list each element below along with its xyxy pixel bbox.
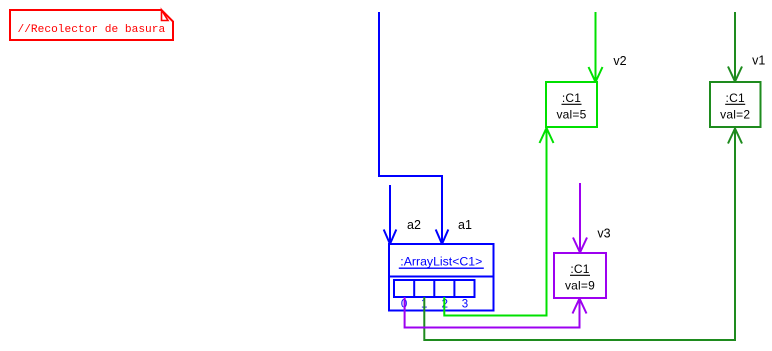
arrowhead a2: [384, 230, 397, 245]
wire cell1 to val=2 box (dark green): [424, 129, 735, 341]
arrowhead v3: [573, 238, 587, 253]
svg-text:val=2: val=2: [720, 108, 750, 122]
ArrayList cells row: [394, 280, 475, 297]
object box :C1 val=2 (dark green): [710, 82, 761, 127]
arrowhead into val=5 bottom: [540, 128, 554, 143]
svg-text::C1: :C1: [570, 262, 589, 276]
cell index labels 0 1 2 3: [401, 299, 468, 311]
arrowhead v2: [589, 67, 603, 82]
note box "//Recolector de basura": [10, 10, 173, 40]
svg-text:val=5: val=5: [556, 108, 586, 122]
svg-text::C1: :C1: [726, 91, 745, 105]
wire a2 (blue line): [389, 185, 391, 244]
svg-text:v1: v1: [752, 54, 765, 68]
svg-text::ArrayList<C1>: :ArrayList<C1>: [400, 254, 482, 268]
svg-text:a2: a2: [407, 218, 421, 232]
svg-text:val=9: val=9: [565, 279, 595, 293]
object box :C1 val=5 (bright green): [546, 82, 597, 127]
svg-text:v2: v2: [613, 54, 626, 68]
ArrayList object box: [389, 244, 494, 311]
wire cell0 to val=9 box (purple): [405, 297, 580, 328]
svg-text:v3: v3: [597, 226, 610, 240]
wire v2 (bright green): [595, 12, 597, 82]
wire a1 (blue polyline from top): [379, 12, 442, 244]
svg-text:a1: a1: [458, 218, 472, 232]
wire v3 (purple): [579, 183, 581, 253]
svg-text:3: 3: [462, 299, 468, 311]
arrowhead a1: [436, 230, 449, 245]
svg-text::C1: :C1: [562, 91, 581, 105]
arrowhead into val=2 bottom: [728, 129, 742, 144]
arrowhead v1: [728, 67, 742, 82]
wire v1 (dark green): [734, 12, 736, 82]
wire cell2 to val=5 box (bright green): [444, 128, 546, 316]
svg-text://Recolector de basura: //Recolector de basura: [18, 24, 166, 36]
object box :C1 val=9 (purple): [554, 253, 606, 298]
arrowhead into val=9 bottom: [573, 299, 587, 314]
